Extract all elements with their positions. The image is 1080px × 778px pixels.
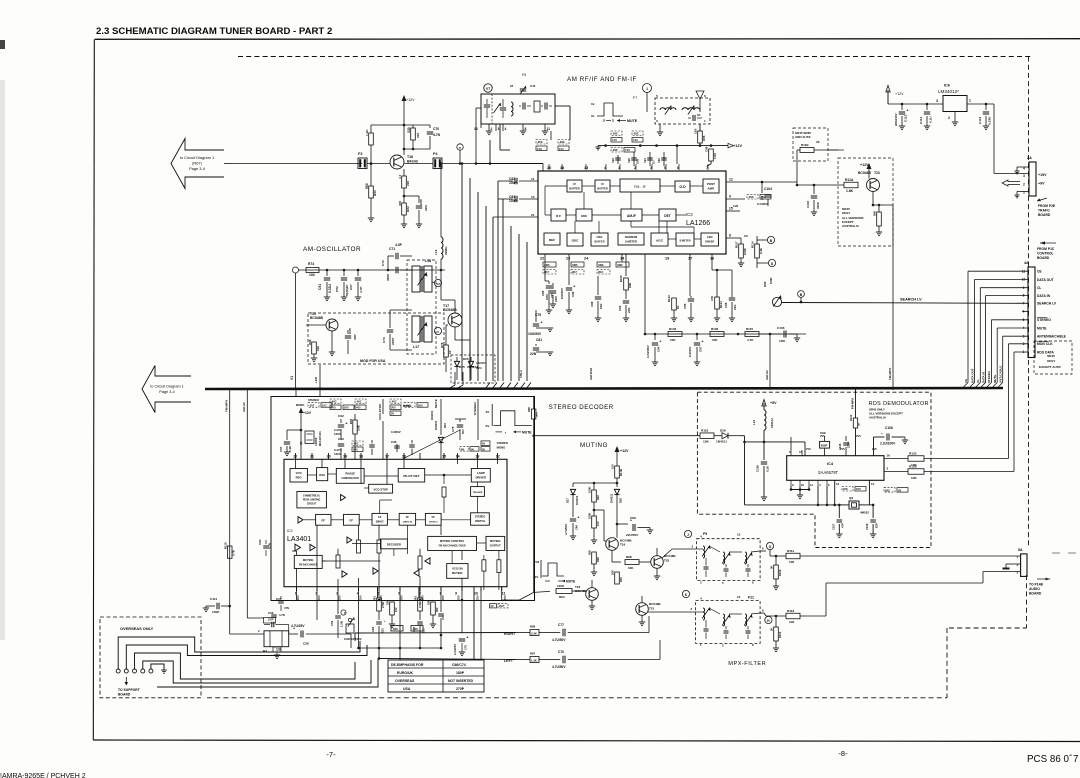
svg-text:2: 2 [691,607,693,611]
resistor R11A 1.8K [844,182,858,188]
svg-text:1N4151: 1N4151 [716,440,727,444]
svg-text:21: 21 [531,213,535,217]
wire 4A pin 5 [991,319,1028,321]
value boxes 28C pin14 [884,488,895,493]
ground [547,351,553,353]
svg-text:MUTE: MUTE [434,399,438,408]
transistor T22 BC548B [651,556,664,569]
detector coil dashed box [655,98,710,124]
svg-text:C111: C111 [210,597,217,601]
wire T21 to F11 [648,611,696,613]
wire bottom link [441,647,462,649]
svg-text:C81: C81 [536,338,542,342]
capacitor C96 22N [729,297,735,299]
svg-text:100R: 100R [769,278,773,284]
wire overseas 2 [126,645,367,669]
svg-text:C94: C94 [657,346,661,352]
svg-text:R116: R116 [701,429,709,433]
svg-text:0V: 0V [471,447,474,451]
svg-text:STEREO: STEREO [1037,318,1051,322]
wire F6 down feeders [542,164,544,172]
svg-text:2: 2 [258,629,260,633]
svg-text:R30: R30 [373,190,377,196]
svg-text:C99: C99 [820,431,826,435]
svg-text:16: 16 [887,454,891,458]
svg-text:FF: FF [378,515,382,519]
svg-text:D31: D31 [443,423,447,428]
wire rds data down [1013,352,1015,472]
wire left up [659,612,661,660]
svg-text:4.7U/50V: 4.7U/50V [552,665,566,669]
svg-text:11: 11 [547,127,551,131]
polar capacitor C89 22U/50V [617,523,628,525]
right vertical mute rail [533,434,535,592]
filter F4 [433,158,442,169]
svg-text:TO P14B: TO P14B [1029,583,1044,587]
svg-text:R112: R112 [787,609,795,613]
svg-text:7: 7 [1073,754,1078,765]
svg-text:-40C: -40C [356,400,362,404]
svg-text:OUTPUT: OUTPUT [490,544,501,548]
svg-text:C65: C65 [348,328,352,334]
wire bundle 5 [157,659,378,688]
wire [404,163,433,165]
svg-text:330: 330 [407,127,411,133]
svg-text:100: 100 [789,560,794,564]
svg-text:5K6: 5K6 [535,412,539,417]
svg-text:+12V: +12V [303,411,312,415]
svg-text:OSC: OSC [596,235,602,239]
svg-text:56K: 56K [873,211,877,216]
resistor R81 270R [378,587,380,599]
wire pin5 drop [377,587,379,599]
svg-text:3: 3 [936,99,938,103]
wire mon clk down [1008,344,1010,459]
2A pin1 stub [1017,191,1029,193]
svg-text:MUTING: MUTING [580,442,608,449]
value box 180 right [411,626,423,632]
svg-text:C85: C85 [541,290,545,296]
svg-text:C69: C69 [419,199,423,205]
antenna [696,91,704,99]
wire R112 route to 5A [800,615,826,617]
resistor R133 [673,254,675,296]
svg-text:DET: DET [664,214,670,218]
svg-text:22N: 22N [733,305,737,310]
svg-text:C86: C86 [571,291,575,297]
ground [649,528,651,531]
svg-text:Q1: Q1 [299,441,303,445]
svg-text:-29C: -29C [633,132,639,136]
wire T21 [641,596,643,603]
svg-text:AMP.: AMP. [708,187,715,191]
svg-text:3: 3 [1017,571,1019,575]
junction dots below IC2 [378,599,381,602]
ground [311,357,317,359]
svg-text:8: 8 [525,127,527,131]
svg-text:1N4151: 1N4151 [610,493,614,503]
transistor T17 BC548B [448,313,462,327]
bottom rule [93,740,1080,742]
svg-text:AM-OSCILLATOR: AM-OSCILLATOR [303,246,361,253]
IC4 bottom pins [790,480,792,486]
diode D24 [468,361,473,366]
wire [456,385,463,389]
wire pin16 [884,458,908,460]
ground [729,317,735,319]
svg-text:14: 14 [871,482,875,486]
svg-text:6: 6 [828,483,830,487]
svg-text:C57: C57 [279,446,283,452]
transistor T15 BC548B [326,319,338,331]
power +5V RDS [763,403,765,410]
wire to de-emphasis [400,659,441,661]
value boxes 22C pin13 [842,487,853,492]
ground [904,437,906,440]
svg-text:P: P [459,146,461,150]
svg-text:47P: 47P [841,523,845,528]
wire [371,124,430,126]
svg-text:FROM P2E: FROM P2E [1038,204,1056,208]
svg-text:10K: 10K [712,338,718,342]
svg-text:12: 12 [729,178,733,182]
svg-text:L21: L21 [752,419,756,425]
wire pin7 stub [676,146,678,164]
svg-text:FM-MPX: FM-MPX [225,399,229,412]
svg-text:VT: VT [486,87,491,91]
svg-text:R110: R110 [778,631,782,638]
svg-text:19KHZ 90: 19KHZ 90 [403,522,413,524]
svg-text:BC548B: BC548B [310,316,323,320]
dashed box D26 [451,355,495,383]
svg-text:R106: R106 [711,327,719,331]
pilot det resistor [442,487,446,497]
svg-text:10U/50V: 10U/50V [560,288,564,299]
capacitor C51 0.33U [326,270,328,276]
svg-text:R92: R92 [596,495,600,500]
filter F11 dashed box [696,601,761,644]
wire to J [661,551,675,558]
svg-text:1/3: 1/3 [276,648,281,652]
block FF 38KHZ [372,513,387,525]
wire 4A pin 3 [1003,335,1028,337]
stereo decoder outer box [271,397,535,601]
svg-text:1V7: 1V7 [322,403,327,407]
wire [442,163,476,165]
wire vertical feeders left of IC3 [461,164,463,382]
svg-text:22R: 22R [628,283,632,288]
svg-text:R87: R87 [530,652,536,656]
ground [623,317,629,319]
svg-text:2V2: 2V2 [856,487,861,491]
svg-text:1K: 1K [697,113,701,117]
node B circle upper [767,236,774,243]
wire pin16 drop [711,254,713,270]
wire [331,331,333,344]
F11 element 3 [744,615,752,626]
svg-text:4V5: 4V5 [356,406,361,410]
wire [367,163,390,165]
wire [370,145,372,186]
svg-text:F3: F3 [358,152,362,156]
svg-text:LAMP: LAMP [477,471,485,475]
svg-text:H: H [767,619,770,623]
svg-text:0v: 0v [591,102,595,106]
coil L19 29MH [440,164,442,238]
svg-text:4.7N: 4.7N [433,133,441,137]
svg-text:REG: REG [296,475,302,479]
block NARROW S-METER [618,233,644,245]
svg-text:VCO ON: VCO ON [452,567,463,571]
wire F6 pin drops [489,140,491,164]
wire T23 emitter [872,192,874,206]
svg-text:2.2U/100V: 2.2U/100V [646,345,650,358]
value box pin24 [597,262,610,267]
svg-text:+: + [540,320,543,325]
resistor R76 1K [444,345,449,357]
wire stereo drop [477,399,479,440]
wire FM-MPX into RDS [855,389,857,418]
svg-text:C62: C62 [338,414,344,418]
svg-text:BOARD: BOARD [1038,213,1051,217]
svg-text:100K: 100K [557,584,565,588]
svg-text:LM34012*: LM34012* [938,89,959,94]
svg-text:11: 11 [502,592,506,596]
capacitor C114 0.1U [926,104,928,110]
svg-text:IC4: IC4 [827,462,834,466]
svg-text:1U/100V: 1U/100V [688,346,692,357]
value boxes pin16 [390,399,401,404]
svg-text:R17B: R17B [619,469,623,476]
power +12V T23 [868,166,870,179]
svg-text:R F: R F [556,214,561,218]
capacitor C91 pin3 [649,152,651,166]
svg-text:4: 4 [700,597,702,601]
svg-text:-29C: -29C [559,140,565,144]
svg-text:100K: 100K [588,487,592,493]
svg-text:19: 19 [665,257,669,261]
svg-text:100: 100 [309,273,315,277]
wire to connector 2A [993,104,995,174]
svg-text:C70: C70 [433,127,439,131]
wire T19 emitter chain [611,556,613,562]
svg-text:5V: 5V [482,447,485,451]
svg-text:C67: C67 [349,284,353,290]
capacitor C52 [343,270,345,276]
IC2 internal pin stubs [295,459,297,468]
svg-text:2V0: 2V0 [441,595,445,600]
svg-text:220U/16V: 220U/16V [894,113,898,126]
svg-text:180: 180 [413,627,418,631]
overseas connector pin 2 [124,669,128,673]
wire 4A pin 10 [975,279,1029,281]
table de-emphasis [388,660,484,692]
resistor R94 100K [556,589,572,594]
svg-text:D27: D27 [566,498,570,503]
wire 4A pin7 search lv stub [1020,302,1028,304]
ground [389,623,395,625]
cal boxes -30C 0V2 [747,195,758,200]
svg-text:270P: 270P [456,687,465,691]
svg-text:LA3401: LA3401 [287,536,311,543]
svg-text:DRIVER: DRIVER [476,475,487,479]
svg-text:3: 3 [656,119,658,123]
svg-text:FM-MPX: FM-MPX [888,367,892,380]
svg-text:33K: 33K [544,263,550,267]
svg-text:+: + [906,108,909,113]
svg-text:CL: CL [1037,286,1041,290]
svg-text:180: 180 [393,627,398,631]
svg-text:V2: V2 [436,282,440,286]
resistor R122 [853,418,857,428]
node V3 terminal [434,327,441,334]
transistor T18 BC548B [586,588,599,601]
svg-text:2K: 2K [857,423,861,426]
transistor T23 BC548B [867,179,880,192]
svg-text:0V: 0V [898,488,901,492]
svg-text:1N4151: 1N4151 [575,495,579,505]
wire R129 out [924,471,1014,473]
capacitor C70 4.7N [427,131,433,133]
svg-text:2: 2 [1023,183,1025,187]
svg-text:LEFT: LEFT [504,659,514,663]
svg-text:6.3K: 6.3K [759,248,763,254]
svg-text:C106: C106 [777,326,785,330]
svg-text:MON CLK: MON CLK [1037,342,1053,346]
svg-text:0.1U: 0.1U [288,446,292,452]
svg-text:BOARD: BOARD [118,693,131,697]
svg-text:CD456: CD456 [314,437,318,446]
svg-text:C108: C108 [885,426,893,430]
resistor R111 100 [786,553,800,559]
capacitor C150 0.1U [763,442,765,460]
svg-text:50V: 50V [461,429,465,434]
svg-text:560: 560 [365,183,369,189]
svg-text:2V0: 2V0 [476,595,480,600]
wire [712,269,732,271]
svg-text:V: V [437,330,440,334]
svg-text:5: 5 [722,644,724,648]
svg-text:T22: T22 [664,559,670,563]
wire F6 right stub [555,105,570,107]
svg-text:2K7: 2K7 [544,270,549,274]
capacitor C107 [838,505,840,518]
IC2 LA3401 body [284,459,507,586]
svg-text:C52: C52 [335,286,339,292]
svg-text:TRIGGER: TRIGGER [473,492,483,494]
node D circle [768,259,775,266]
svg-text:OVERSEAS: OVERSEAS [395,679,415,683]
node +12V junction [403,124,406,127]
svg-text:3: 3 [498,127,500,131]
svg-text:22N: 22N [554,296,558,302]
block FF1 [316,514,331,525]
svg-text:PHASE: PHASE [345,471,355,475]
svg-text:8: 8 [752,643,754,647]
svg-text:VCO: VCO [296,471,303,475]
svg-text:V50-2: V50-2 [519,370,523,378]
svg-text:AM RF/IF AND FM-IF: AM RF/IF AND FM-IF [567,76,637,83]
svg-text:9: 9 [729,195,731,199]
svg-text:1U/63V: 1U/63V [391,430,401,434]
wire [370,198,372,218]
svg-text:5: 5 [722,581,724,585]
capacitor C71b [438,613,444,615]
svg-text:-: - [1069,750,1072,761]
wire [797,149,800,151]
transistor T21 BC548B [636,603,649,616]
ground [652,361,658,363]
svg-text:2V0: 2V0 [418,403,423,407]
capacitor C92 22N [625,290,627,299]
svg-text:IC6: IC6 [944,84,950,88]
resistor R pot 102K [346,624,354,633]
svg-text:AM-AF: AM-AF [242,402,246,412]
svg-text:BF243: BF243 [407,160,418,164]
wire [646,93,648,113]
svg-text:C72: C72 [441,615,445,620]
svg-text:220: 220 [416,133,420,138]
capacitor C88 10N [597,254,599,262]
ground [570,535,576,537]
svg-text:C66/C74: C66/C74 [452,663,466,667]
wire overseas 3 [135,653,356,679]
wire pin10 drop [473,587,475,661]
ground [761,496,767,498]
resistor R129 10K [908,469,924,475]
svg-text:FM AM CHANGE OVER: FM AM CHANGE OVER [439,545,466,548]
svg-text:15K: 15K [703,440,709,444]
capacitor C73 220P [389,322,391,328]
svg-text:R94: R94 [559,595,565,599]
value boxes stereo mono top [308,403,319,408]
svg-text:100V: 100V [334,452,341,456]
resistor R104 47K [715,297,720,309]
cal boxes -29C 1V2 [632,131,643,136]
svg-text:+5V: +5V [770,401,777,405]
block DECODER [381,539,408,549]
svg-text:1: 1 [646,87,648,91]
svg-text:TRAFO: TRAFO [1038,209,1050,213]
label FROM P1C CONTROL BOARD [1040,242,1056,244]
ground [714,317,720,319]
diode D27 1N4151 [570,489,575,494]
svg-text:Page 3-4: Page 3-4 [159,390,174,394]
svg-text:R86: R86 [530,625,536,629]
filter F2 ceramic [264,631,289,647]
ground [547,327,553,329]
svg-text:MUTING: MUTING [490,539,501,543]
svg-text:3.3K: 3.3K [531,631,537,635]
block AGC [651,233,668,246]
F9 element 3 [744,553,752,564]
dashed box SR45 SR65 [793,128,828,161]
svg-text:CONTROL: CONTROL [1037,252,1054,256]
svg-text:0.33U: 0.33U [988,116,992,125]
svg-text:S-METER: S-METER [679,240,690,243]
IC2 internal resistors [482,560,486,571]
cal boxes -65C 1V0 [536,140,547,145]
svg-text:22C: 22C [843,487,848,491]
capacitor C67 4.7P [357,270,359,276]
svg-text:MONO: MONO [296,403,304,407]
svg-text:22U/50V: 22U/50V [626,533,639,537]
ground [671,317,677,319]
wire [770,435,791,437]
svg-text:AM-OS2: AM-OS2 [589,368,593,380]
svg-text:97: 97 [510,84,514,88]
capacitor C54 4.7N [287,530,289,540]
